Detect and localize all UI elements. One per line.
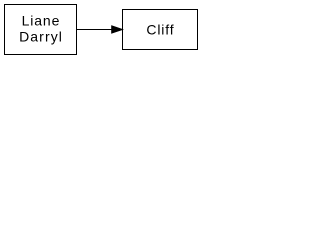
svg-text:Liane: Liane: [22, 13, 60, 29]
svg-text:Darryl: Darryl: [19, 29, 62, 45]
node Cliff: [123, 10, 198, 50]
node Liane Darryl: [5, 5, 77, 55]
arrowhead: [112, 26, 123, 33]
svg-text:Cliff: Cliff: [146, 22, 173, 38]
wire edge Liane Darryl -> Cliff: [77, 29, 112, 31]
